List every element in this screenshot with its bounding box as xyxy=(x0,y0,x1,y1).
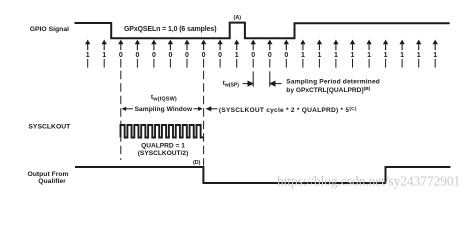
label (A) above glitch pulse xyxy=(234,15,242,21)
svg-text:0: 0 xyxy=(168,52,172,59)
svg-text:0: 0 xyxy=(185,52,189,59)
sampled bit values row xyxy=(86,52,438,59)
svg-text:(D): (D) xyxy=(193,160,201,166)
svg-text:0: 0 xyxy=(119,52,123,59)
label Output From Qualifier xyxy=(27,171,68,185)
GPIO Signal waveform xyxy=(75,23,450,39)
svg-text:(SYSCLKOUT cycle * 2 * QUALPR: (SYSCLKOUT cycle * 2 * QUALPRD) * 5(C) xyxy=(219,106,357,114)
svg-text:SYSCLKOUT: SYSCLKOUT xyxy=(28,123,71,130)
svg-text:(A): (A) xyxy=(234,15,242,21)
sampling window dimension arrows and label xyxy=(122,107,203,111)
dashed line t_w(SP) left (sample 11) xyxy=(252,71,254,86)
svg-text:(SYSCLKOUT/2): (SYSCLKOUT/2) xyxy=(138,150,189,157)
svg-text:0: 0 xyxy=(251,52,255,59)
svg-text:by GPxCTRL[QUALPRD](B): by GPxCTRL[QUALPRD](B) xyxy=(286,86,370,94)
label QUALPRD = 1 xyxy=(141,143,185,150)
svg-text:0: 0 xyxy=(152,52,156,59)
watermark csdn xyxy=(277,173,460,188)
svg-text:1: 1 xyxy=(235,52,239,59)
svg-text:1: 1 xyxy=(102,52,106,59)
svg-text:1: 1 xyxy=(334,52,338,59)
dashed line t_w(SP) right (sample 12) xyxy=(269,71,271,86)
label Sampling Window xyxy=(135,106,193,113)
dashed line sampling window end (sample 8) xyxy=(203,71,205,166)
SYSCLKOUT clock waveform xyxy=(121,125,204,138)
svg-text:1: 1 xyxy=(384,52,388,59)
label (SYSCLKOUT cycle * 2 * QUALPRD) * 5 xyxy=(219,106,357,114)
svg-text:Sampling Period determined: Sampling Period determined xyxy=(286,78,380,85)
label (D) xyxy=(193,160,201,166)
svg-text:0: 0 xyxy=(284,52,288,59)
svg-text:Output From: Output From xyxy=(27,171,68,178)
svg-text:1: 1 xyxy=(351,52,355,59)
label Sampling Period determined by GPxCTRL[QUALPRD] xyxy=(286,78,380,94)
svg-text:1: 1 xyxy=(86,52,90,59)
label GPxQSELn = 1,0 (6 samples) xyxy=(124,26,217,33)
svg-text:1: 1 xyxy=(417,52,421,59)
label SYSCLKOUT xyxy=(28,123,71,130)
svg-text:0: 0 xyxy=(268,52,272,59)
label GPIO Signal xyxy=(30,26,69,33)
svg-text:1: 1 xyxy=(367,52,371,59)
svg-text:QUALPRD = 1: QUALPRD = 1 xyxy=(141,143,185,150)
dashed line sampling window start (sample 3) xyxy=(120,71,122,160)
svg-text:0: 0 xyxy=(202,52,206,59)
svg-text:1: 1 xyxy=(317,52,321,59)
svg-text:https://blog.csdn.net/sy243772: https://blog.csdn.net/sy243772901 xyxy=(277,173,460,188)
svg-text:1: 1 xyxy=(301,52,305,59)
svg-text:GPIO Signal: GPIO Signal xyxy=(30,26,69,33)
label t_w(SP) xyxy=(223,80,240,89)
svg-text:1: 1 xyxy=(433,52,437,59)
sampling point arrows (22) xyxy=(85,40,438,45)
label t_w(IQSW) xyxy=(151,94,177,103)
svg-text:Qualifier: Qualifier xyxy=(38,178,66,185)
svg-text:0: 0 xyxy=(135,52,139,59)
label (SYSCLKOUT/2) xyxy=(138,150,189,157)
svg-text:1: 1 xyxy=(400,52,404,59)
t_w(SP) dimension arrows xyxy=(243,81,282,86)
svg-text:Sampling Window: Sampling Window xyxy=(135,106,193,113)
svg-text:0: 0 xyxy=(218,52,222,59)
sampling point arrow shafts xyxy=(88,43,436,50)
svg-text:GPxQSELn = 1,0 (6 samples): GPxQSELn = 1,0 (6 samples) xyxy=(124,26,217,33)
Output From Qualifier waveform xyxy=(75,167,451,183)
short tick dashes below values xyxy=(88,59,436,68)
arrow for SYSCLKOUT cycle annotation xyxy=(206,106,218,111)
